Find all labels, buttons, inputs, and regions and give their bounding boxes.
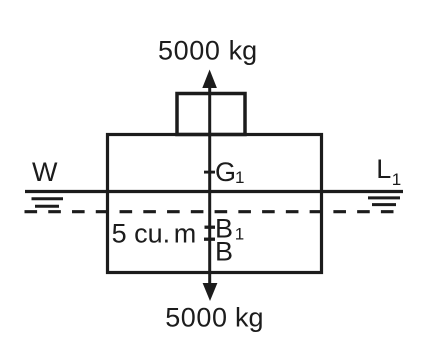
- tick B1: [205, 226, 216, 229]
- label G1: [215, 157, 244, 187]
- svg-text:G: G: [215, 157, 236, 187]
- down arrowhead: [203, 283, 218, 301]
- tick G: [204, 171, 215, 174]
- pontoon body (main rectangle): [108, 135, 322, 273]
- svg-text:L: L: [376, 154, 391, 184]
- svg-text:5000: 5000: [165, 302, 227, 332]
- dashed submerged line: [25, 210, 394, 213]
- label B1: [215, 213, 244, 243]
- svg-text:1: 1: [235, 168, 244, 187]
- svg-text:5000: 5000: [158, 35, 220, 65]
- svg-text:W: W: [32, 157, 58, 187]
- label: top load 5000 kg: [158, 35, 257, 65]
- label L1: [376, 154, 401, 189]
- water surface hatch left: [32, 199, 64, 207]
- deck block (small rectangle): [177, 94, 245, 135]
- waterline W-L1 (solid): [25, 190, 403, 193]
- up arrowhead: [202, 70, 217, 89]
- svg-text:1: 1: [392, 170, 401, 189]
- label: bottom load 5000 kg: [165, 302, 263, 332]
- svg-text:m: m: [174, 219, 197, 249]
- svg-text:B: B: [215, 237, 233, 267]
- svg-text:1: 1: [235, 224, 244, 243]
- water surface hatch right: [368, 198, 400, 205]
- svg-text:kg: kg: [235, 302, 264, 332]
- svg-text:5 cu.: 5 cu.: [112, 219, 171, 249]
- tick B: [204, 238, 215, 241]
- svg-text:kg: kg: [229, 35, 258, 65]
- vertical centerline (arrow shaft): [208, 80, 211, 290]
